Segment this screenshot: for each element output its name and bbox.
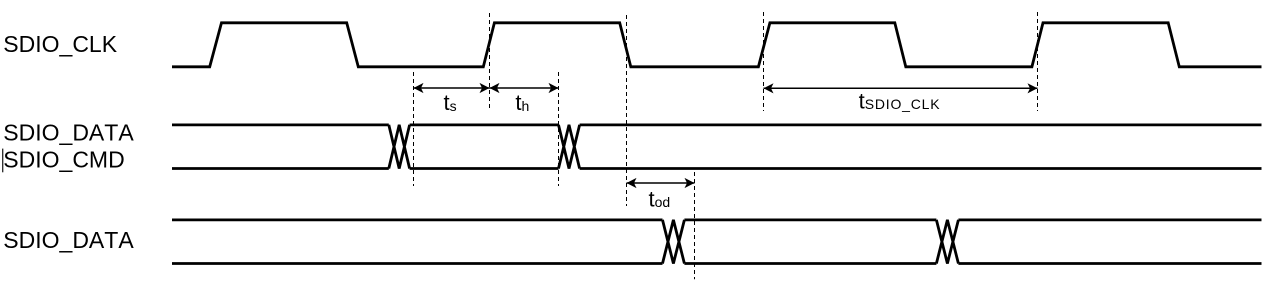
bus crossover 2 — [559, 125, 580, 169]
bus crossover 1 — [389, 125, 410, 169]
dashed marker at tod end — [694, 172, 696, 279]
dashed marker at clock rising edge 4 — [1037, 12, 1039, 111]
output crossover 1 — [663, 220, 685, 264]
SDIO_CLK waveform — [172, 23, 1262, 67]
arrow tSDIO_CLK — [764, 83, 1038, 93]
svg-text:SDIO_CLK: SDIO_CLK — [3, 31, 117, 57]
arrow th — [490, 83, 559, 93]
arrow tod — [627, 178, 695, 188]
dashed marker at clock falling edge 2 — [626, 15, 628, 206]
svg-text:ts: ts — [444, 90, 457, 115]
svg-text:SDIO_DATA: SDIO_DATA — [3, 120, 134, 146]
SDIO_DATA/CMD bus top line — [172, 123, 1262, 126]
output crossover 2 — [936, 220, 958, 264]
svg-text:th: th — [515, 90, 529, 115]
dashed marker at clock rising edge 3 — [763, 12, 765, 111]
SDIO_DATA/CMD bus bottom line — [172, 167, 1262, 170]
SDIO_DATA output top line — [172, 218, 1262, 221]
svg-text:SDIO_CMD: SDIO_CMD — [3, 147, 124, 173]
dashed marker at th end — [558, 72, 560, 186]
svg-text:tSDIO_CLK: tSDIO_CLK — [859, 89, 941, 114]
SDIO_DATA output bottom line — [172, 262, 1262, 265]
dashed marker at clock rising edge 2 — [489, 13, 491, 110]
svg-text:tod: tod — [649, 187, 671, 212]
text cursor bar — [2, 149, 3, 173]
arrow ts — [414, 83, 490, 93]
svg-text:SDIO_DATA: SDIO_DATA — [3, 227, 134, 253]
dashed marker at ts start — [413, 72, 415, 186]
